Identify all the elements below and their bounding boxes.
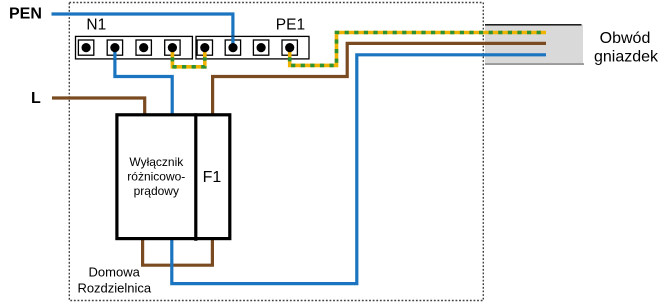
RCD + fuse box (Wylacznik roznicowo-pradowy / F1) bbox=[117, 113, 230, 241]
terminal PE1-2 bbox=[225, 36, 240, 55]
terminal block N1 bbox=[76, 36, 193, 59]
svg-text:Obwód: Obwód bbox=[600, 30, 651, 47]
label: Domowa Rozdzielnica bbox=[77, 265, 151, 296]
label: Obwod gniazdek bbox=[594, 30, 659, 66]
svg-text:N1: N1 bbox=[86, 16, 106, 33]
wire: L loop RCD bottom to F1 bottom (brown) bbox=[143, 239, 213, 265]
label: F1 bbox=[203, 169, 222, 186]
wire: PEN feed (blue) from PEN label to PE1 terminal 2 bbox=[52, 14, 233, 46]
terminal N1-3 bbox=[136, 40, 151, 55]
cable sheath: Obwod gniazdek bbox=[485, 25, 584, 65]
wire: PE jumper N1 terminal 4 to PE1 terminal 1 (yellow-green) bbox=[172, 48, 204, 67]
label: PEN bbox=[9, 6, 42, 23]
wire: L feed (brown) from L label into RCD top bbox=[52, 98, 145, 115]
svg-text:prądowy: prądowy bbox=[134, 184, 179, 198]
terminal N1-4 bbox=[165, 40, 180, 60]
svg-text:Wyłącznik: Wyłącznik bbox=[129, 155, 184, 169]
wire: L out of F1 top to socket circuit (brown) bbox=[213, 43, 546, 115]
terminal N1-1 bbox=[78, 40, 93, 55]
label: Wylacznik roznicowo-pradowy bbox=[127, 155, 185, 198]
terminal block PE1 bbox=[196, 36, 309, 59]
terminal PE1-3 bbox=[253, 40, 268, 55]
label: L bbox=[31, 90, 41, 107]
terminal dots PE1 bbox=[200, 43, 294, 52]
svg-text:PEN: PEN bbox=[9, 6, 42, 23]
svg-text:Rozdzielnica: Rozdzielnica bbox=[77, 281, 151, 296]
wire: PE from PE1 terminal 4 to socket circuit (yellow-green) bbox=[290, 33, 546, 66]
svg-text:różnicowo-: różnicowo- bbox=[127, 169, 185, 183]
terminal N1-2 bbox=[107, 40, 122, 59]
terminal PE1-4 bbox=[282, 40, 297, 60]
terminal PE1-1 bbox=[197, 40, 212, 60]
wire: N from N1 terminal 2 down into RCD top (blue) bbox=[115, 48, 172, 115]
wire: N out of RCD bottom to socket circuit (blue) bbox=[172, 55, 546, 284]
svg-text:F1: F1 bbox=[203, 169, 222, 186]
enclosure border (dashed): Domowa Rozdzielnica bbox=[69, 3, 483, 301]
svg-text:gniazdek: gniazdek bbox=[594, 49, 659, 66]
label: N1 bbox=[86, 16, 106, 33]
label: PE1 bbox=[276, 16, 305, 33]
svg-text:L: L bbox=[31, 90, 41, 107]
terminal dots N1 bbox=[82, 43, 177, 52]
svg-text:Domowa: Domowa bbox=[89, 265, 141, 280]
svg-text:PE1: PE1 bbox=[276, 16, 305, 33]
